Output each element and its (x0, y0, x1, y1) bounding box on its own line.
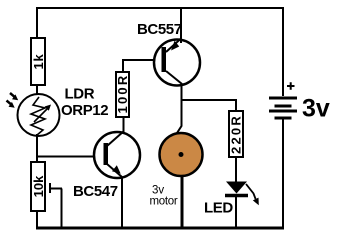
LED emission arrow (246, 184, 259, 205)
transistor Q1 BC547 (94, 131, 140, 178)
wire LDR to base node (36, 134, 38, 163)
wire wiper to bottom rail (61, 189, 63, 229)
LDR ORP12 (18, 94, 60, 136)
svg-text:220R: 220R (229, 114, 244, 154)
wire collector node to 220R (181, 99, 236, 112)
svg-text:1k: 1k (31, 53, 46, 69)
battery BT1 3v (269, 97, 297, 120)
wire motor to bottom rail (181, 175, 184, 228)
LED D1 (225, 182, 248, 196)
svg-text:100R: 100R (115, 74, 130, 114)
svg-text:LDR: LDR (65, 86, 95, 103)
wire 10k to bottom rail (36, 210, 38, 228)
battery plus sign (287, 82, 295, 89)
motor M1 3v (160, 133, 203, 176)
resistor 220R (229, 111, 244, 157)
wire 1k to LDR (36, 84, 38, 97)
wire LED to bottom rail (235, 196, 237, 228)
resistor 10k (31, 162, 46, 211)
resistor 1k (31, 38, 46, 85)
svg-text:BC547: BC547 (73, 183, 118, 200)
wire top supply rail (36, 7, 284, 9)
resistor 100R (115, 72, 130, 117)
svg-text:motor: motor (150, 196, 178, 208)
wiper tick of 10k (49, 183, 51, 193)
wire Q1 collector to 100R (123, 114, 125, 132)
svg-text:3v: 3v (302, 95, 330, 123)
light arrow 2 into LDR (7, 101, 15, 108)
wire top rail to R1 1k (36, 7, 38, 39)
svg-text:ORP12: ORP12 (61, 102, 108, 119)
wire wiper horizontal (50, 188, 62, 190)
wire Q1 emitter to bottom rail (121, 177, 123, 228)
svg-text:LED: LED (204, 200, 233, 217)
wire 100R to Q2 base (122, 60, 163, 73)
svg-text:10k: 10k (31, 175, 46, 197)
svg-text:BC557: BC557 (137, 21, 182, 38)
light arrow 1 into LDR (10, 93, 18, 100)
wire Q2 collector to motor (177, 83, 182, 133)
transistor Q2 BC557 (154, 39, 200, 86)
wire battery minus to bottom rail (282, 120, 284, 229)
wire top rail to battery plus (282, 7, 284, 96)
bottom rail (36, 227, 284, 230)
wire 220R to LED (235, 156, 237, 182)
wire Q2 emitter to top rail (180, 7, 182, 43)
wire base node to Q1 base (36, 156, 105, 158)
